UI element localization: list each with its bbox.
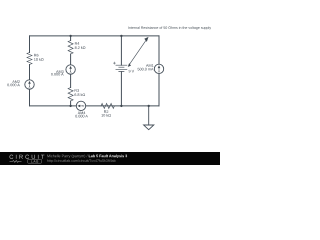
wire bottom rail right of AM4 (86, 105, 159, 107)
battery plus sign (113, 62, 115, 64)
ammeter AM4 body (76, 101, 85, 110)
wire column2 mid1 (70, 54, 72, 65)
ammeter AM2 arrow (28, 81, 31, 84)
label AM2 value (7, 84, 20, 87)
logo resistor zigzag (10, 161, 22, 163)
wire top rail (30, 35, 160, 37)
ammeter AM1 arrow (158, 65, 161, 68)
annotation arrow line (129, 39, 147, 66)
battery V1 stem bottom (120, 72, 122, 106)
label AM1 value (138, 68, 154, 71)
wire AM1 column lower (158, 74, 160, 106)
ground stem (148, 106, 150, 125)
wire AM1 column upper (158, 36, 160, 64)
caption bar (0, 152, 220, 165)
annotation text (128, 26, 211, 29)
label AM3 value (51, 73, 64, 76)
label R4 value (75, 46, 86, 49)
ammeter AM3 letter A (70, 71, 72, 73)
node dot bottom battery (120, 105, 122, 107)
annotation arrowhead top (144, 37, 148, 42)
node dot bottom column2 (69, 105, 71, 107)
label R4 name (75, 42, 79, 45)
label R6 name (34, 54, 38, 57)
logo CIRCUIT (10, 155, 45, 159)
ammeter AM3 body (66, 65, 75, 74)
label R2 name (104, 110, 108, 113)
wire left column lower (29, 89, 31, 106)
wire left column upper (29, 36, 31, 53)
label AM4 name (78, 112, 86, 115)
caption title (89, 155, 127, 158)
label AM1 name (146, 64, 154, 67)
wire column2 lower (70, 101, 72, 106)
wire column2 mid2 (70, 74, 72, 87)
node dot top column2 (69, 35, 71, 37)
ammeter AM2 letter A (29, 86, 31, 88)
label AM2 name (12, 80, 20, 83)
ammeter AM4 letter A (82, 105, 84, 107)
battery V1 stem top (120, 36, 122, 65)
logo LAB text (31, 160, 38, 162)
wire left column mid (29, 65, 31, 80)
ammeter AM3 arrow (69, 66, 72, 69)
node dot top battery (120, 35, 122, 37)
wire bottom rail (30, 105, 77, 107)
label R6 value (34, 58, 43, 61)
resistor R4 8.2k (68, 41, 73, 55)
wire column2 upper (70, 36, 72, 41)
ammeter AM4 arrow (77, 105, 80, 108)
resistor R3 6.8k (68, 88, 73, 102)
label AM4 value (75, 115, 88, 118)
annotation arrowhead bottom (128, 63, 131, 67)
label battery 9V (129, 70, 134, 73)
caption author (47, 155, 87, 158)
node dot ground (148, 105, 150, 107)
ammeter AM1 body (154, 64, 163, 73)
battery V1 plates (116, 65, 127, 71)
ammeter AM2 body (25, 80, 34, 89)
label R3 name (75, 89, 79, 92)
label AM3 name (56, 70, 64, 73)
resistor R6 10k (27, 53, 32, 65)
resistor R2 10k (101, 103, 114, 108)
label R2 value (101, 114, 110, 117)
ground triangle (144, 125, 154, 130)
label R3 value (74, 93, 85, 96)
caption url (47, 159, 115, 162)
ammeter AM1 letter A (158, 71, 160, 73)
logo LAB box (28, 159, 42, 163)
